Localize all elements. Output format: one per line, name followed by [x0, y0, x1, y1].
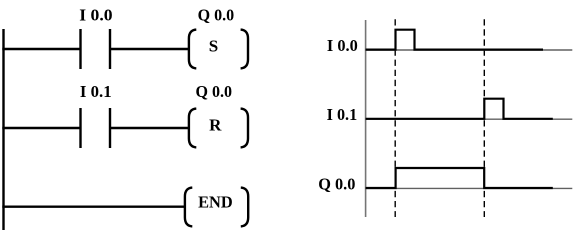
dashed time marker t2 — [483, 19, 485, 217]
Q0.0 signal trace — [366, 168, 553, 188]
svg-text:I 0.0: I 0.0 — [327, 36, 358, 55]
rung 2 wire (rail to contact I0.1) — [2, 127, 80, 129]
I0.1 signal trace — [366, 99, 553, 119]
coil Q0.0 reset, left bracket — [189, 109, 196, 148]
contact I0.1 left bar — [79, 108, 81, 148]
svg-text:I 0.1: I 0.1 — [327, 105, 358, 124]
coil Q0.0 set, left bracket — [189, 30, 196, 69]
contact I0.0 left bar — [79, 29, 81, 69]
rung 3 wire (rail to END coil) — [2, 205, 185, 207]
svg-text:Q 0.0: Q 0.0 — [196, 82, 233, 101]
I0.1 baseline thin axis — [366, 118, 573, 120]
coil Q0.0 reset, right bracket — [241, 109, 248, 148]
coil Q0.0 set, right bracket — [241, 30, 248, 69]
I0.0 baseline thin axis — [366, 49, 573, 51]
rung 2 wire (contact I0.1 to coil Q0.0 R) — [110, 127, 189, 129]
contact I0.0 right bar — [109, 29, 111, 69]
left power rail — [2, 29, 4, 230]
svg-text:I 0.0: I 0.0 — [79, 6, 112, 25]
svg-text:END: END — [198, 193, 233, 212]
coil END, left bracket — [185, 188, 192, 227]
dashed time marker t1 — [394, 19, 396, 217]
rung 1 wire (rail to contact I0.0) — [2, 48, 80, 50]
svg-text:Q 0.0: Q 0.0 — [318, 174, 355, 193]
contact I0.1 right bar — [109, 108, 111, 148]
Q0.0 baseline thin axis — [366, 187, 573, 189]
svg-text:I 0.1: I 0.1 — [80, 82, 112, 101]
svg-text:Q 0.0: Q 0.0 — [198, 5, 235, 24]
timing axis vertical line — [365, 20, 367, 217]
rung 1 wire (contact I0.0 to coil Q0.0 S) — [110, 48, 189, 50]
I0.0 signal trace — [366, 30, 543, 50]
svg-text:S: S — [209, 37, 218, 56]
coil END, right bracket — [241, 188, 248, 227]
svg-text:R: R — [209, 115, 222, 134]
